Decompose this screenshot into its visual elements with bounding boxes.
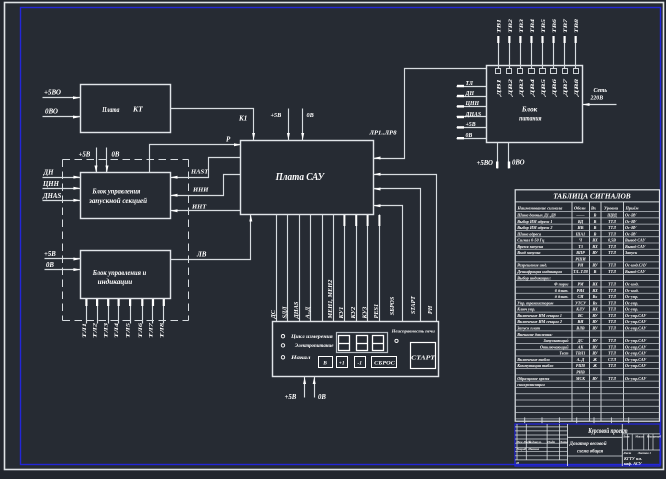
block A2: Блок управления запускной секцией: [81, 173, 171, 219]
svg-text:ТТЛ: ТТЛ: [608, 231, 616, 236]
svg-text:——: ——: [575, 212, 585, 217]
svg-text:ЦНН: ЦНН: [465, 101, 480, 107]
svg-text:+5ВО: +5ВО: [477, 160, 493, 167]
svg-text:Внешние давления:: Внешние давления:: [516, 332, 553, 337]
svg-text:ТЛ3: ТЛ3: [104, 323, 110, 338]
svg-text:0В: 0В: [307, 112, 314, 119]
svg-text:Масса: Масса: [634, 435, 644, 439]
svg-text:КТ: КТ: [132, 105, 143, 114]
svg-text:Накал: Накал: [290, 356, 312, 361]
pin ЦНН stub on Блок питания left: [457, 106, 487, 108]
svg-text:ТТЛ: ТТЛ: [608, 269, 616, 274]
svg-text:Плата: Плата: [102, 105, 120, 114]
svg-text:ДВ6: ДВ6: [552, 78, 558, 97]
svg-text:Ос-упр.САУ: Ос-упр.САУ: [625, 313, 647, 318]
svg-text:0В: 0В: [112, 152, 120, 159]
title block left grid: [516, 424, 518, 460]
svg-text:ДВ7: ДВ7: [563, 78, 569, 97]
svg-text:ЛР1..ЛР8: ЛР1..ЛР8: [369, 130, 398, 137]
svg-text:синхронизации: синхронизации: [517, 382, 545, 387]
svg-text:Ос-упр.САУ: Ос-упр.САУ: [625, 357, 647, 362]
svg-text:ТТЛ: ТТЛ: [608, 282, 616, 287]
pin ДН stub on Блок питания left: [457, 96, 487, 98]
wire 0V into panel bottom: [314, 377, 316, 398]
LED 3 Накал: [281, 356, 284, 359]
svg-text:ИНТ: ИНТ: [191, 203, 207, 210]
svg-text:РЕЅ1: РЕЅ1: [373, 304, 380, 319]
wire INT from САУ to block A2: [171, 210, 241, 212]
svg-text:Ос-упр.: Ос-упр.: [625, 294, 638, 299]
svg-text:Ос-упр.САУ: Ос-упр.САУ: [625, 363, 647, 368]
svg-text:Запускающий: Запускающий: [542, 338, 569, 343]
svg-text:КУ3: КУ3: [361, 307, 368, 320]
svg-text:Листов 1: Листов 1: [637, 451, 652, 455]
svg-text:ТВ1: ТВ1: [497, 19, 503, 33]
pin 0ВО stub bottom of Блок питания: [508, 143, 510, 169]
pin ТЛ stub on Блок питания left: [457, 86, 487, 88]
svg-text:ТЛ5: ТЛ5: [126, 323, 132, 338]
svg-text:Ос-упр.САУ: Ос-упр.САУ: [625, 319, 647, 324]
svg-text:ТЛ7: ТЛ7: [149, 323, 155, 338]
svg-text:Приём: Приём: [625, 205, 639, 210]
svg-text:Вх: Вх: [590, 205, 597, 210]
display digit 1: [339, 336, 350, 351]
pin ТВ5 output of Блок питания: [542, 37, 544, 69]
pin +5ВО stub bottom of Блок питания: [497, 143, 499, 169]
svg-text:Ос-упр.: Ос-упр.: [625, 300, 638, 305]
svg-text:ТТЛ: ТТЛ: [608, 307, 616, 312]
svg-text:Подп: Подп: [546, 440, 555, 444]
svg-text:РИ4: РИ4: [577, 288, 585, 293]
svg-text:0В: 0В: [318, 394, 326, 401]
svg-text:РН: РН: [428, 305, 434, 314]
pin ТВ7 output of Блок питания: [564, 37, 566, 69]
wire КУ3 САУ-панель: [367, 215, 369, 322]
svg-text:СБРОС: СБРОС: [374, 362, 395, 367]
wire ЅДЛ САУ-панель: [287, 215, 289, 322]
svg-text:ТТЛ: ТТЛ: [608, 219, 616, 224]
svg-text:Отключающий: Отключающий: [540, 344, 569, 349]
wire DNAS input: [43, 200, 81, 202]
svg-text:МЕН1, МЕН2: МЕН1, МЕН2: [327, 280, 334, 320]
svg-text:ДВ8: ДВ8: [574, 78, 580, 97]
button СБРОС: [372, 357, 397, 368]
svg-text:Выбор ИМ адреса 2: Выбор ИМ адреса 2: [516, 225, 552, 230]
svg-text:ТЛ2: ТЛ2: [93, 323, 99, 338]
svg-text:Вход запуска: Вход запуска: [516, 250, 540, 255]
svg-text:ВХ: ВХ: [591, 288, 598, 293]
svg-text:ТТЛ: ТТЛ: [608, 313, 616, 318]
svg-text:К1: К1: [238, 115, 247, 123]
svg-text:Шина данных Д1..Д8: Шина данных Д1..Д8: [516, 212, 556, 217]
wire ДНАЅ САУ-панель: [299, 215, 301, 322]
svg-text:А..Д: А..Д: [576, 357, 585, 362]
svg-text:ВПР: ВПР: [575, 250, 585, 255]
svg-text:Ж: Ж: [592, 363, 597, 368]
svg-text:Ос-упр.САУ: Ос-упр.САУ: [625, 338, 647, 343]
wire CNN input: [43, 188, 81, 190]
svg-text:Сеть: Сеть: [594, 88, 608, 94]
svg-text:Включение ИМ секции 2: Включение ИМ секции 2: [516, 319, 562, 324]
wire P from block A2 to Плата САУ: [150, 145, 241, 173]
svg-text:ДНАЅ: ДНАЅ: [42, 193, 61, 200]
block A1: Плата КТ: [81, 85, 171, 133]
svg-text:ДВ3: ДВ3: [519, 78, 525, 97]
block A3: Блок управления и индикации: [81, 251, 171, 299]
button -1: [355, 357, 366, 368]
title block right grid: [621, 424, 623, 466]
svg-text:каф. АСУ: каф. АСУ: [624, 461, 643, 466]
svg-text:Уровни: Уровни: [604, 205, 619, 210]
svg-text:индикации: индикации: [98, 278, 133, 286]
table row lines: [515, 211, 659, 213]
svg-text:+5ВО: +5ВО: [44, 89, 61, 97]
svg-text:ТЛ6: ТЛ6: [138, 323, 144, 338]
svg-text:Включение ИМ секции 1: Включение ИМ секции 1: [516, 313, 562, 318]
svg-text:ДВ1: ДВ1: [497, 78, 503, 97]
svg-text:ТВ3: ТВ3: [519, 19, 525, 33]
svg-text:0,5В: 0,5В: [608, 238, 616, 243]
wire РЕЅ1 САУ-панель: [379, 215, 381, 322]
svg-text:ТЗ: ТЗ: [578, 244, 583, 249]
svg-text:ИВ: ИВ: [577, 225, 584, 230]
pin ТВ6 output of Блок питания: [553, 37, 555, 69]
wire 0V into САУ top: [302, 109, 304, 141]
svg-text:ДВ4: ДВ4: [530, 78, 536, 97]
svg-text:УТСУ: УТСУ: [575, 300, 587, 305]
svg-text:Образцовое время: Образцовое время: [517, 376, 549, 381]
svg-text:ЅТАРТ: ЅТАРТ: [411, 296, 417, 314]
svg-text:0В: 0В: [46, 262, 54, 269]
svg-text:Р: Р: [226, 136, 231, 144]
svg-text:ТВ7: ТВ7: [563, 19, 569, 33]
svg-text:АК: АК: [577, 344, 584, 349]
wire RN from panel to САУ: [374, 175, 437, 322]
svg-text:ТТЛ: ТТЛ: [608, 300, 616, 305]
connector square ДВ7: [563, 69, 568, 74]
wire +5V into САУ top: [288, 109, 290, 141]
svg-text:ТТЛ: ТТЛ: [608, 376, 616, 381]
svg-text:Ос-упр.САУ: Ос-упр.САУ: [625, 376, 647, 381]
wire INI from САУ to block A2: [171, 175, 241, 196]
svg-text:Обозн: Обозн: [574, 205, 586, 210]
svg-text:И: И: [515, 461, 519, 465]
svg-text:ТТЛ: ТТЛ: [608, 338, 616, 343]
display indicator frame: [337, 333, 388, 353]
svg-text:220В: 220В: [590, 96, 604, 102]
svg-text:б длит.: б длит.: [555, 288, 569, 293]
svg-text:ТЛ4: ТЛ4: [114, 323, 120, 338]
svg-text:0ВО: 0ВО: [512, 160, 525, 167]
svg-text:Ос-упр.САУ: Ос-упр.САУ: [625, 351, 647, 356]
svg-text:ДН: ДН: [43, 170, 55, 177]
svg-text:ТТЛ: ТТЛ: [608, 326, 616, 331]
svg-text:Лит: Лит: [622, 435, 630, 439]
svg-text:ТВ4: ТВ4: [530, 19, 536, 33]
svg-text:Блок: Блок: [521, 107, 538, 114]
svg-text:№ докум.: № докум.: [527, 440, 542, 444]
button +1: [337, 357, 348, 368]
connector square ДВ6: [551, 69, 557, 74]
wire +5V into block A2 top: [96, 148, 98, 173]
svg-text:ТВ5: ТВ5: [541, 19, 547, 33]
svg-text:ВИ: ВИ: [577, 319, 585, 324]
svg-text:РШИ: РШИ: [575, 256, 586, 261]
svg-text:РИ: РИ: [578, 263, 585, 268]
pin ТЛ2 of block A3: [97, 299, 99, 324]
svg-text:ТВ2: ТВ2: [508, 19, 514, 33]
svg-text:ТТЛ: ТТЛ: [608, 263, 616, 268]
svg-text:Ос-упр.САУ: Ос-упр.САУ: [625, 344, 647, 349]
svg-text:+5В: +5В: [79, 152, 91, 159]
svg-text:ИНИ: ИНИ: [192, 187, 209, 194]
svg-text:-1: -1: [357, 361, 362, 367]
svg-text:Ос-упр.САУ: Ос-упр.САУ: [625, 326, 647, 331]
wire ДС САУ-панель: [276, 215, 278, 322]
svg-text:Ф порог: Ф порог: [554, 282, 569, 287]
wire LV from block A3 to Плата САУ: [171, 215, 251, 260]
svg-text:ДНАЅ: ДНАЅ: [293, 301, 300, 319]
svg-text:В: В: [593, 219, 597, 224]
svg-text:д длит.: д длит.: [555, 294, 569, 299]
svg-text:Вывод САУ: Вывод САУ: [624, 269, 646, 274]
svg-text:Вывод САУ: Вывод САУ: [624, 238, 646, 243]
title block (основная надпись): [515, 424, 660, 466]
wire 0VO input to Плата КТ: [43, 116, 81, 118]
svg-text:Запуск плат: Запуск плат: [516, 326, 540, 331]
svg-text:ДВ2: ДВ2: [508, 78, 514, 97]
svg-text:Выбор индикации:: Выбор индикации:: [516, 275, 551, 280]
svg-text:ТТЛ: ТТЛ: [608, 319, 616, 324]
svg-text:Коммутация табло: Коммутация табло: [516, 363, 553, 368]
wire START from panel to САУ: [374, 189, 421, 322]
svg-text:Электропитание: Электропитание: [295, 344, 334, 349]
pin ТВ4 output of Блок питания: [531, 37, 533, 69]
svg-text:ВХ: ВХ: [591, 307, 598, 312]
pin ТВ2 output of Блок питания: [509, 37, 511, 69]
svg-text:КЛУ: КЛУ: [575, 307, 586, 312]
svg-text:0В: 0В: [466, 133, 473, 139]
wire 0V into block A2 top: [106, 148, 108, 173]
display digit 3: [373, 336, 384, 351]
svg-text:ДВ5: ДВ5: [541, 78, 547, 97]
svg-text:ДН: ДН: [465, 91, 475, 97]
title block middle: Курсовой проект: [568, 436, 623, 438]
pin ТВ3 output of Блок питания: [520, 37, 522, 69]
svg-text:Неисправность печи: Неисправность печи: [391, 329, 436, 334]
svg-text:Разраб: Разраб: [516, 447, 526, 451]
svg-text:ДНАЅ: ДНАЅ: [465, 112, 482, 118]
svg-text:КУ1: КУ1: [338, 307, 345, 320]
connector square ДВ1: [496, 69, 501, 74]
svg-text:Ос-ВУ: Ос-ВУ: [625, 231, 638, 236]
svg-text:Ос-упр.: Ос-упр.: [625, 307, 638, 312]
LED 2 Электропитание: [281, 344, 284, 347]
pin ТВ8 output of Блок питания: [575, 37, 577, 69]
svg-text:ДС: ДС: [270, 309, 277, 319]
svg-text:РИВ: РИВ: [576, 369, 585, 374]
svg-text:Дешифрация индикации: Дешифрация индикации: [516, 269, 562, 274]
pin ТЛ5 of block A3: [130, 299, 132, 324]
svg-text:Вх: Вх: [592, 300, 598, 305]
wire +5VO input to Плата КТ: [43, 97, 81, 99]
block A4: Плата САУ: [241, 141, 374, 215]
connector square ДВ5: [540, 69, 546, 74]
wire Сеть 220В into Блок питания: [583, 104, 617, 106]
svg-text:ТВ8: ТВ8: [574, 19, 580, 33]
dashed enclosure box: [63, 159, 189, 161]
connector square ДВ8: [574, 69, 579, 74]
svg-text:ЦНН: ЦНН: [42, 181, 60, 188]
svg-text:ТЛ: ТЛ: [466, 81, 475, 87]
svg-text:Наименование сигнала: Наименование сигнала: [517, 205, 564, 210]
svg-text:Сигнал 0-50 Гц: Сигнал 0-50 Гц: [517, 238, 545, 243]
svg-text:ВХ: ВХ: [591, 282, 598, 287]
wire SBROS from panel to САУ: [374, 206, 403, 322]
svg-text:Разрешение инд.: Разрешение инд.: [517, 263, 547, 268]
svg-text:Масштаб: Масштаб: [646, 435, 662, 439]
svg-text:ДС: ДС: [577, 338, 584, 343]
wire K1 from Плата КТ to Плата САУ: [171, 109, 254, 141]
svg-text:ЛВ: ЛВ: [196, 251, 207, 259]
wire 0V input block A3: [45, 269, 81, 271]
svg-text:ША1: ША1: [575, 231, 585, 236]
svg-text:Ос-инд.: Ос-инд.: [625, 282, 639, 287]
svg-text:+5В: +5В: [466, 122, 476, 128]
svg-text:ТТЛ: ТТЛ: [608, 288, 616, 293]
svg-text:Ж: Ж: [592, 357, 597, 362]
svg-text:Цикл измерения: Цикл измерения: [290, 335, 334, 340]
display digit 2: [357, 336, 368, 351]
button СТАРТ: [411, 343, 436, 369]
connector square ДВ4: [529, 69, 535, 74]
svg-text:Выбор ИМ адреса 1: Выбор ИМ адреса 1: [516, 219, 552, 224]
svg-text:+1: +1: [339, 361, 345, 367]
wire LR1..LR8 bus from САУ to Блок питания: [374, 69, 487, 159]
svg-text:Упр. транзистором: Упр. транзистором: [517, 300, 553, 305]
svg-text:В: В: [593, 212, 597, 217]
svg-text:КУ2: КУ2: [350, 307, 357, 320]
svg-text:СТАРТ: СТАРТ: [411, 354, 436, 361]
svg-text:ТЛ..ТЛ8: ТЛ..ТЛ8: [573, 269, 588, 274]
pin +5В stub on Блок питания left: [457, 127, 487, 129]
svg-text:Ос-инд.: Ос-инд.: [625, 288, 639, 293]
pin 0В stub on Блок питания left: [457, 138, 487, 140]
pin ТЛ6 of block A3: [142, 299, 144, 324]
svg-text:Включение табло: Включение табло: [516, 357, 550, 362]
pin ТЛ4 of block A3: [118, 299, 120, 324]
svg-text:ТВ6: ТВ6: [552, 19, 558, 33]
svg-text:ЩРД: ЩРД: [606, 212, 617, 217]
wire +5V input block A3: [45, 258, 81, 260]
svg-text:ЅДЛ: ЅДЛ: [282, 306, 289, 319]
svg-text:В: В: [322, 361, 327, 367]
svg-text:РШ8: РШ8: [576, 363, 585, 368]
svg-text:Лист: Лист: [622, 451, 631, 455]
svg-text:ЅБРОЅ: ЅБРОЅ: [390, 296, 396, 315]
svg-text:ТТЛ: ТТЛ: [608, 351, 616, 356]
svg-text:В: В: [593, 231, 597, 236]
block A5: Блок питания: [487, 66, 583, 143]
svg-text:ТТЛ: ТТЛ: [608, 344, 616, 349]
pin ДНАЅ stub on Блок питания left: [457, 116, 487, 118]
pin ТЛ1 of block A3: [86, 299, 88, 324]
wire DN input: [43, 177, 81, 179]
svg-text:Ос-ВУ: Ос-ВУ: [625, 212, 638, 217]
connector square ДВ2: [507, 69, 512, 74]
svg-text:Ос-инд.САУ: Ос-инд.САУ: [625, 263, 648, 268]
LED 1 Цикл измерения: [281, 335, 284, 338]
svg-text:ТАБЛИЦА СИГНАЛОВ: ТАБЛИЦА СИГНАЛОВ: [553, 192, 630, 201]
svg-text:МСК: МСК: [575, 376, 585, 381]
svg-text:Блок управления: Блок управления: [91, 187, 140, 195]
svg-text:ВД: ВД: [577, 219, 584, 224]
svg-text:РМ: РМ: [577, 282, 583, 287]
svg-text:СИ: СИ: [578, 294, 585, 299]
svg-text:ТТЛ: ТТЛ: [608, 363, 616, 368]
wire NAST from САУ to block A2: [171, 158, 241, 178]
svg-text:ВС: ВС: [577, 313, 584, 318]
svg-text:В: В: [593, 269, 597, 274]
button В: [319, 357, 333, 368]
wire КУ1 САУ-панель: [344, 215, 346, 322]
svg-text:ВЛВ: ВЛВ: [575, 326, 585, 331]
wire MEN1 САУ-панель: [322, 215, 324, 322]
wire +5V into panel bottom: [304, 377, 306, 398]
svg-text:ТТЛ: ТТЛ: [608, 225, 616, 230]
pin ТЛ8 of block A3: [163, 299, 165, 324]
svg-text:Ос-ВУ: Ос-ВУ: [625, 219, 638, 224]
connector square ДВ3: [518, 69, 523, 74]
svg-text:СТЛ: СТЛ: [608, 357, 616, 362]
svg-text:ТТЛ: ТТЛ: [608, 294, 616, 299]
svg-text:запускной секцией: запускной секцией: [88, 197, 147, 205]
svg-text:питания: питания: [519, 115, 542, 122]
svg-text:Время запуска: Время запуска: [516, 244, 543, 249]
signal table ТАБЛИЦА СИГНАЛОВ: [515, 190, 659, 421]
svg-text:ТТЛ: ТТЛ: [608, 250, 616, 255]
svg-text:Дата: Дата: [559, 440, 569, 444]
svg-text:ТЛ8: ТЛ8: [159, 323, 165, 338]
svg-text:Тест: Тест: [559, 351, 568, 356]
wire МЕН1, МЕН2 САУ-панель: [333, 215, 335, 322]
svg-text:ТЛ1: ТЛ1: [82, 323, 88, 338]
svg-text:схема общая: схема общая: [577, 448, 603, 455]
LED Неисправность печи: [395, 339, 398, 342]
svg-text:+5В: +5В: [44, 251, 56, 258]
svg-text:А..Д: А..Д: [304, 306, 311, 319]
svg-text:+5В: +5В: [271, 112, 282, 119]
svg-text:Шина адреса: Шина адреса: [516, 231, 541, 236]
svg-text:Запуск: Запуск: [624, 250, 638, 255]
svg-text:Вх: Вх: [592, 294, 598, 299]
svg-text:0ВО: 0ВО: [45, 108, 58, 116]
svg-text:Вывод САУ: Вывод САУ: [624, 244, 646, 249]
svg-text:Дозатор весовой: Дозатор весовой: [569, 440, 607, 447]
table bottom ticks: [524, 417, 526, 423]
svg-text:Плата САУ: Плата САУ: [275, 172, 326, 183]
svg-text:Ключ упр.: Ключ упр.: [516, 307, 535, 312]
svg-text:НАЅТ: НАЅТ: [190, 168, 209, 175]
svg-text:ТВЛ1: ТВЛ1: [575, 351, 585, 356]
pin ТВ1 output of Блок питания: [498, 37, 500, 69]
table column lines: [571, 202, 573, 421]
svg-text:ВХ: ВХ: [591, 238, 598, 243]
block A6: пульт управления panel: [273, 322, 439, 377]
pin ТЛ7 of block A3: [152, 299, 154, 324]
wire КУ2 САУ-панель: [356, 215, 358, 322]
pin ТЛ3 of block A3: [108, 299, 110, 324]
